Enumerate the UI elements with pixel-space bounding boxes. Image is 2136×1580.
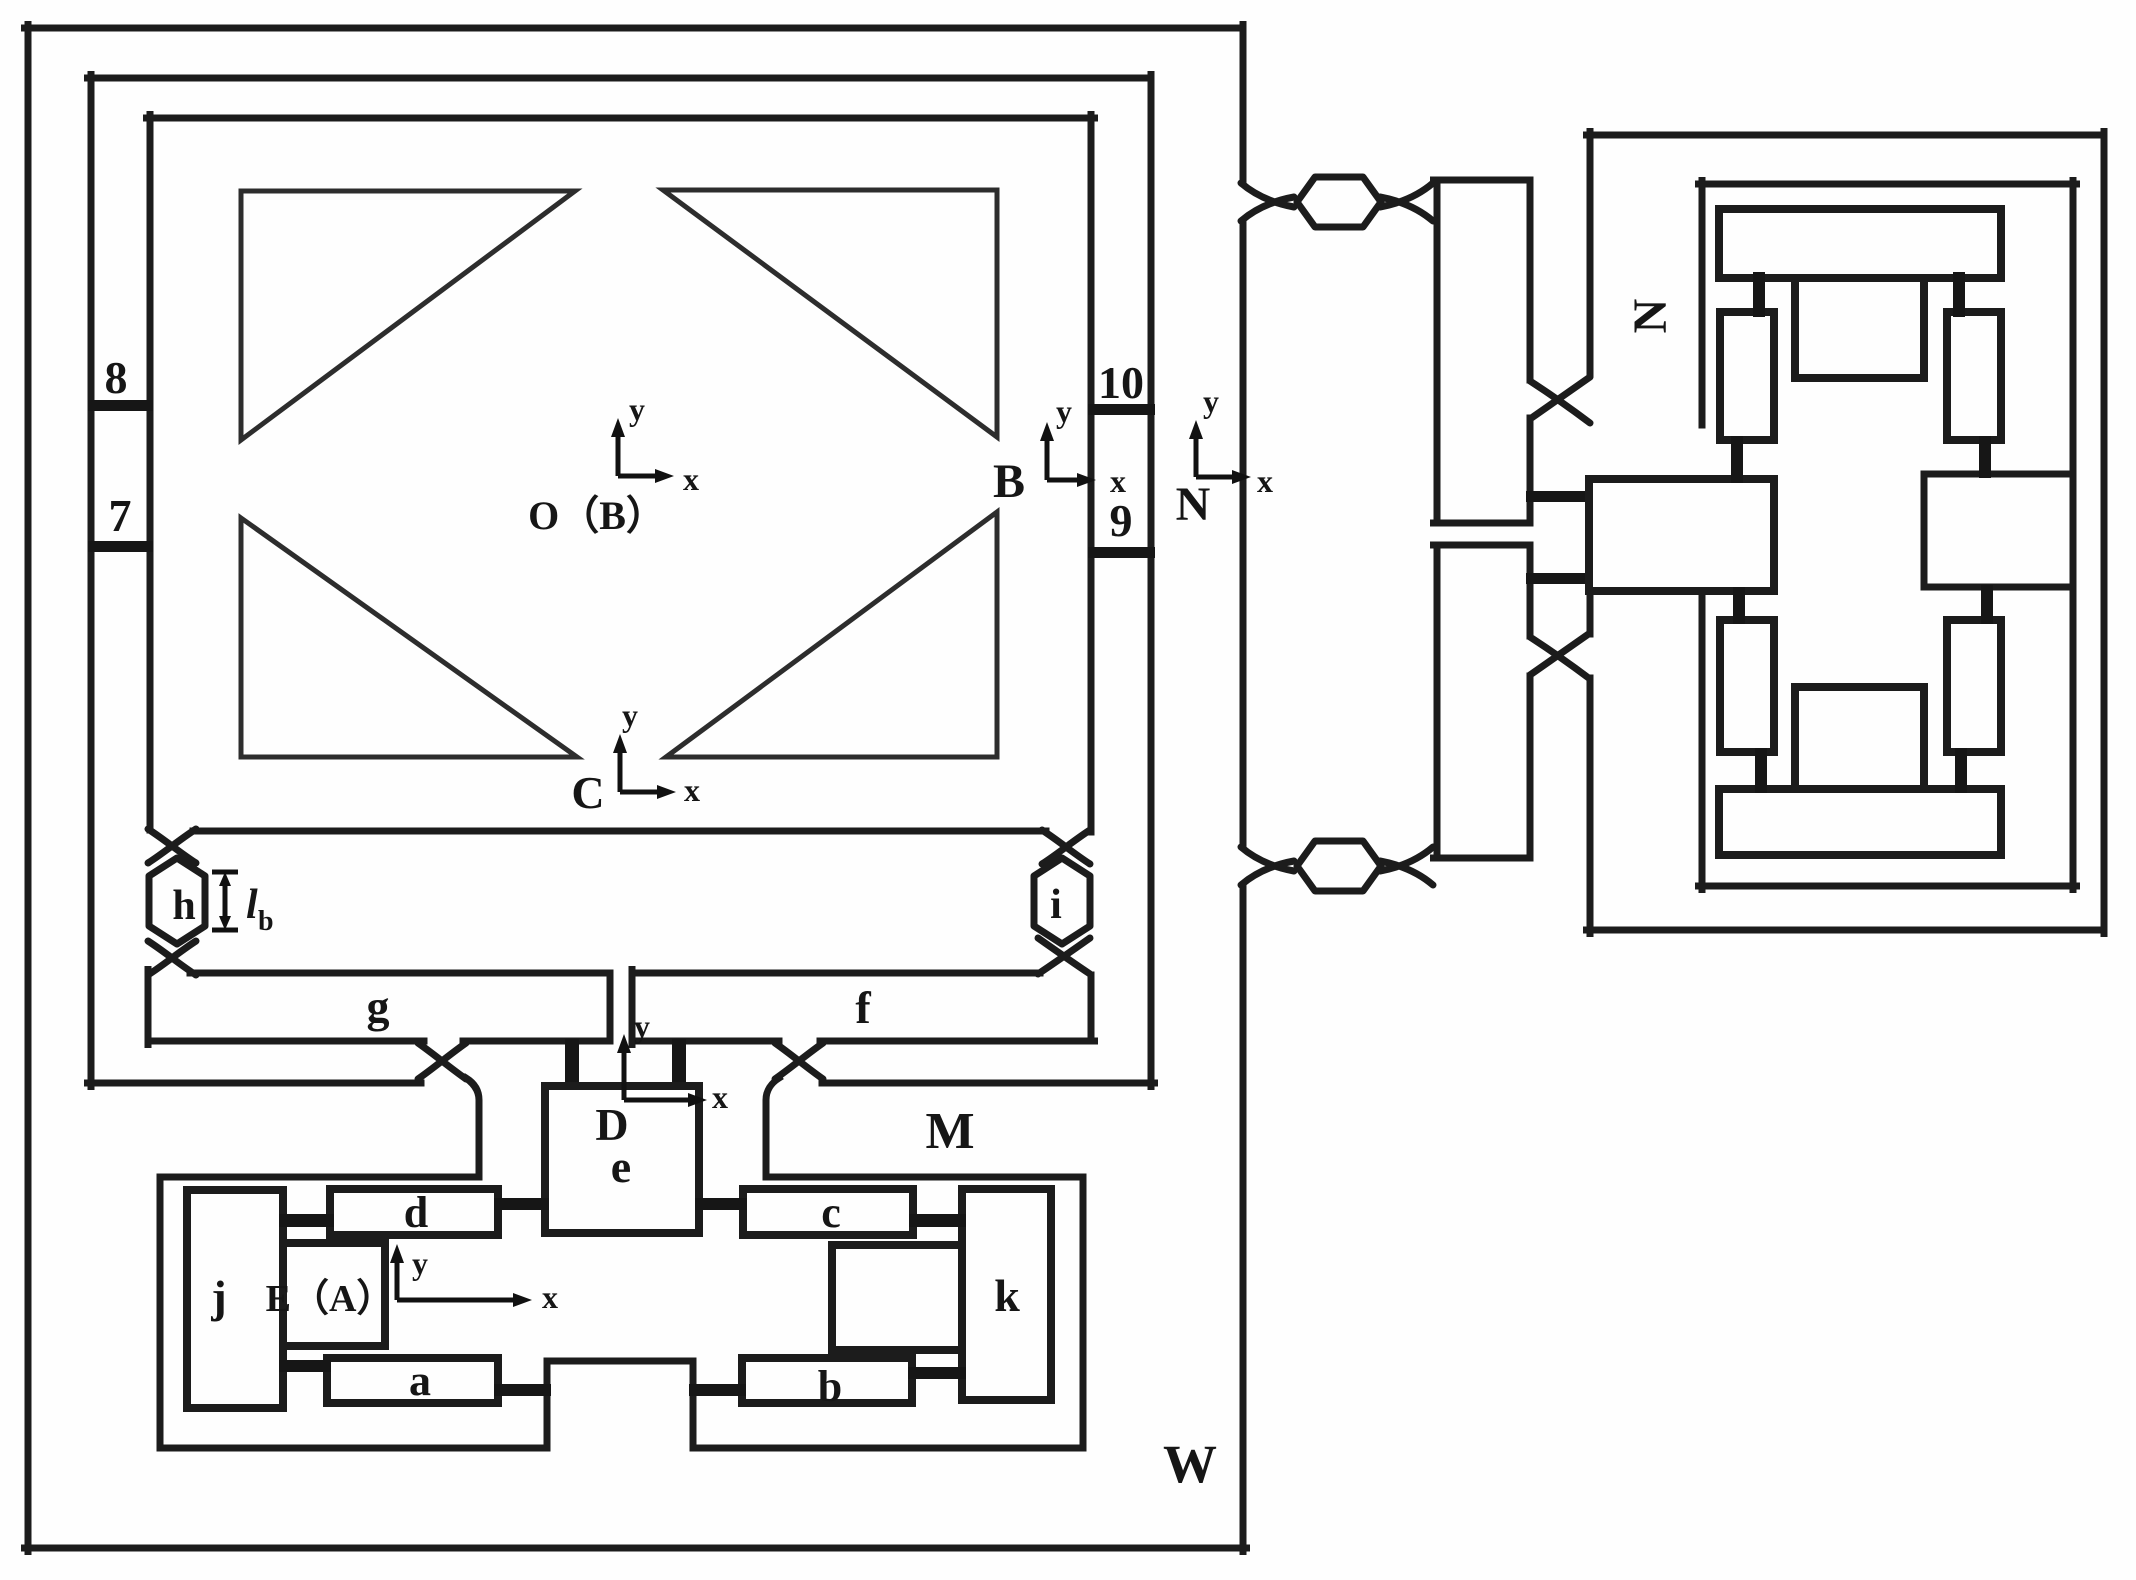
- beam bottom-right (rotated b): [1947, 620, 2001, 752]
- beam top-right (rotated c): [1947, 312, 2001, 440]
- spring X under g: [418, 1043, 466, 1079]
- svg-text:g: g: [367, 981, 390, 1032]
- flexure hexagon i: [1034, 858, 1090, 944]
- svg-text:b: b: [818, 1362, 842, 1411]
- svg-text:y: y: [634, 1008, 650, 1044]
- connector c-k: [909, 1214, 966, 1227]
- anchor stub left of D: [565, 1039, 579, 1090]
- node B axes: [1040, 393, 1126, 499]
- svg-text:10: 10: [1098, 357, 1144, 408]
- svg-text:b: b: [258, 906, 274, 937]
- wire: frame2 bottom edge right segment: [822, 1080, 1155, 1087]
- frame 2 (intermediate frame): [88, 75, 1155, 1087]
- connector j-d: [279, 1214, 334, 1227]
- triangle plate bottom-right: [666, 512, 997, 757]
- connector stub e-bar bottom-left: [1733, 587, 1745, 624]
- svg-text:8: 8: [105, 352, 128, 403]
- svg-text:y: y: [1056, 393, 1072, 429]
- svg-text:x: x: [1257, 463, 1273, 499]
- svg-text:e: e: [611, 1141, 631, 1192]
- spring X top chain left: [1241, 183, 1294, 221]
- beam g: [148, 970, 610, 1045]
- svg-text:x: x: [542, 1279, 558, 1315]
- svg-text:x: x: [684, 772, 700, 808]
- frame E outer boundary: [160, 1177, 1083, 1448]
- flexure hexagon h: [149, 858, 205, 944]
- svg-text:9: 9: [1110, 495, 1133, 546]
- dimension arrow l_b: [212, 872, 238, 930]
- svg-text:y: y: [1203, 383, 1219, 419]
- node O(B) axes: [611, 391, 699, 497]
- suspension spine bottom T: [1719, 789, 2001, 855]
- node E(A) axes: [390, 1244, 558, 1315]
- connector stub bar-T bottom-right: [1955, 748, 1967, 793]
- node N axes: [1189, 383, 1273, 499]
- svg-text:x: x: [683, 461, 699, 497]
- svg-text:y: y: [412, 1245, 428, 1281]
- suspension beam j spine: [187, 1190, 283, 1408]
- svg-text:N: N: [1176, 478, 1211, 531]
- suspension ring j: [283, 1243, 385, 1346]
- svg-text:j: j: [210, 1271, 226, 1322]
- spring X to N frame upper: [1530, 377, 1590, 423]
- anchor block 7: [88, 541, 153, 552]
- wire: N frame left edge lower segment: [1587, 678, 1594, 934]
- connector stub bar-notch top-right: [1979, 436, 1991, 478]
- suspension beam k spine: [962, 1189, 1051, 1400]
- connector stub ring-e lower: [1526, 573, 1592, 584]
- connector e-c: [695, 1198, 747, 1210]
- wire: W frame right edge middle segment: [1240, 222, 1247, 845]
- svg-text:x: x: [1110, 463, 1126, 499]
- node C axes: [613, 697, 700, 808]
- svg-text:f: f: [855, 982, 871, 1033]
- flexure hexagon top chain: [1297, 177, 1381, 227]
- notch in N inner frame right side: [1924, 474, 2073, 587]
- beam bottom-left (rotated a): [1720, 620, 1774, 752]
- svg-text:C: C: [571, 767, 604, 818]
- svg-text:7: 7: [109, 490, 132, 541]
- wire: N frame left edge upper segment: [1587, 132, 1594, 375]
- triangle plate top-right: [663, 190, 997, 437]
- lever beam top edge: [193, 828, 1046, 835]
- anchor block 9: [1088, 547, 1155, 558]
- svg-text:d: d: [404, 1188, 428, 1237]
- spring X below h: [148, 941, 196, 975]
- connector stub bar-T bottom-left: [1755, 748, 1767, 793]
- suspension ring top: [1795, 278, 1924, 378]
- wire: frame2 bottom edge left segment: [88, 1080, 422, 1087]
- svg-text:a: a: [409, 1356, 431, 1405]
- beam a: [327, 1358, 498, 1403]
- mass block D / e: [545, 1086, 699, 1233]
- frame N outer: [1587, 132, 2105, 934]
- spring X top chain right: [1380, 183, 1433, 221]
- connector b-k: [908, 1367, 966, 1379]
- wire: hanger left to frame E: [466, 1078, 479, 1177]
- connector stub T-bar top-left: [1753, 272, 1765, 317]
- spring X bottom chain left: [1241, 847, 1294, 885]
- frame N inner: [1699, 181, 2077, 890]
- svg-text:k: k: [994, 1270, 1020, 1321]
- svg-text:E（A）: E（A）: [266, 1278, 395, 1320]
- beam c: [743, 1189, 913, 1235]
- svg-text:B: B: [993, 455, 1025, 508]
- svg-text:M: M: [925, 1103, 974, 1160]
- flexure hexagon bottom chain: [1297, 841, 1381, 891]
- svg-text:h: h: [172, 883, 195, 929]
- wire: W frame right edge lower segment: [1240, 887, 1247, 1552]
- svg-text:y: y: [622, 697, 638, 733]
- coupling ring upper: [1434, 180, 1531, 523]
- suspension ring k: [832, 1245, 962, 1350]
- connector stub T-bar top-right: [1953, 272, 1965, 317]
- anchor block 8: [88, 400, 153, 411]
- svg-text:W: W: [1163, 1434, 1217, 1494]
- wire: N inner frame left edge upper: [1699, 181, 1706, 426]
- suspension spine top T: [1719, 209, 2001, 278]
- connector stub notch-bar bottom-right: [1981, 585, 1993, 624]
- triangle plate top-left: [241, 191, 575, 440]
- suspension ring bottom: [1795, 687, 1924, 789]
- wire: W frame right edge upper segment: [1240, 25, 1247, 184]
- wire: N frame left edge between e-block and lower X: [1587, 591, 1594, 634]
- svg-text:l: l: [246, 882, 258, 928]
- svg-text:O（B）: O（B）: [528, 493, 666, 538]
- spring X bottom chain right: [1380, 847, 1433, 885]
- node D axes: [617, 1008, 728, 1115]
- connector a-anchor: [494, 1384, 551, 1396]
- spring X above h: [148, 829, 196, 863]
- beam d: [330, 1189, 498, 1235]
- wire: N inner frame left edge lower: [1699, 591, 1706, 890]
- mass block e of N: [1589, 479, 1774, 591]
- svg-text:N: N: [1624, 298, 1677, 333]
- svg-text:x: x: [712, 1079, 728, 1115]
- spring X below i: [1038, 938, 1090, 974]
- spring X under f: [775, 1043, 823, 1079]
- svg-text:i: i: [1050, 882, 1062, 928]
- connector d-e: [494, 1198, 549, 1210]
- svg-text:c: c: [821, 1188, 841, 1237]
- spring X above i: [1042, 830, 1090, 864]
- anchor stub right of D: [672, 1039, 686, 1090]
- beam f: [632, 970, 1095, 1045]
- coupling ring lower: [1434, 545, 1531, 858]
- connector stub ring-e upper: [1526, 491, 1592, 502]
- svg-text:y: y: [629, 391, 645, 427]
- anchor block 10: [1088, 404, 1155, 415]
- outer frame W: [25, 25, 1247, 1552]
- connector anchor-b: [689, 1384, 746, 1396]
- connector j-a: [279, 1360, 331, 1372]
- wire: hanger right to frame E: [766, 1078, 779, 1177]
- frame 3 (inner drive frame): [147, 115, 1095, 833]
- spring X to N frame lower: [1530, 633, 1590, 679]
- beam b: [742, 1358, 912, 1403]
- beam top-left (rotated d): [1720, 312, 1774, 440]
- connector stub bar-e top-left: [1731, 436, 1743, 483]
- triangle plate bottom-left: [241, 518, 577, 757]
